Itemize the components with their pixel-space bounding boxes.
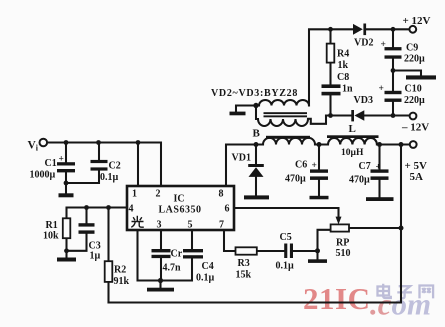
- svg-text:1000µ: 1000µ: [30, 170, 56, 181]
- svg-text:C6: C6: [295, 160, 307, 171]
- svg-text:+: +: [381, 40, 386, 50]
- svg-text:5: 5: [188, 220, 193, 231]
- svg-text:R3: R3: [238, 258, 250, 269]
- svg-text:5A: 5A: [410, 171, 424, 183]
- svg-text:+: +: [312, 161, 317, 171]
- svg-text:B: B: [253, 128, 261, 140]
- svg-text:4: 4: [129, 204, 134, 215]
- svg-text:i: i: [36, 144, 39, 153]
- svg-text:R1: R1: [46, 220, 58, 231]
- svg-text:+ 12V: + 12V: [403, 15, 431, 27]
- svg-text:2: 2: [156, 189, 161, 200]
- svg-text:470µ: 470µ: [349, 175, 370, 186]
- svg-text:VD3: VD3: [354, 95, 373, 106]
- svg-text:C5: C5: [280, 232, 292, 243]
- svg-text:6: 6: [225, 204, 230, 215]
- svg-text:R4: R4: [337, 49, 349, 60]
- svg-text:0.1µ: 0.1µ: [276, 261, 295, 272]
- svg-text:3: 3: [157, 220, 162, 231]
- svg-text:C8: C8: [337, 72, 349, 83]
- svg-text:1: 1: [132, 189, 137, 200]
- svg-text:0.1µ: 0.1µ: [196, 273, 215, 284]
- svg-text:+: +: [379, 84, 384, 94]
- svg-text:Cr: Cr: [171, 249, 183, 260]
- svg-text:C9: C9: [406, 43, 418, 54]
- svg-text:RP: RP: [336, 238, 349, 249]
- svg-text:4.7n: 4.7n: [163, 263, 182, 274]
- svg-text:470µ: 470µ: [285, 174, 306, 185]
- svg-text:+: +: [59, 155, 64, 165]
- svg-text:510: 510: [336, 248, 351, 259]
- svg-text:21IC: 21IC: [303, 281, 370, 316]
- svg-text:– 12V: – 12V: [401, 122, 429, 134]
- svg-text:220µ: 220µ: [404, 54, 425, 65]
- svg-text:10µH: 10µH: [341, 148, 364, 158]
- svg-text:VD2: VD2: [354, 38, 373, 49]
- svg-text:C1: C1: [45, 158, 57, 169]
- svg-text:IC: IC: [174, 194, 185, 205]
- svg-text:1k: 1k: [338, 60, 349, 71]
- svg-text:0.1µ: 0.1µ: [100, 172, 119, 183]
- svg-text:C4: C4: [202, 261, 214, 272]
- svg-text:220µ: 220µ: [404, 95, 425, 106]
- svg-text:1n: 1n: [342, 84, 353, 95]
- svg-text:L: L: [349, 123, 356, 135]
- svg-text:C10: C10: [405, 84, 422, 95]
- svg-text:C7: C7: [359, 161, 371, 172]
- svg-text:VD2~VD3:BYZ28: VD2~VD3:BYZ28: [211, 88, 298, 99]
- svg-text:R2: R2: [114, 265, 126, 276]
- svg-text:8: 8: [219, 189, 224, 200]
- svg-text:+: +: [376, 163, 381, 173]
- svg-text:LAS6350: LAS6350: [159, 205, 202, 216]
- svg-text:10k: 10k: [43, 231, 59, 242]
- svg-text:C2: C2: [109, 161, 121, 172]
- svg-text:1µ: 1µ: [90, 251, 101, 262]
- svg-text:7: 7: [219, 220, 224, 231]
- svg-text:91k: 91k: [114, 276, 130, 287]
- svg-text:VD1: VD1: [232, 153, 251, 164]
- svg-text:15k: 15k: [236, 270, 252, 281]
